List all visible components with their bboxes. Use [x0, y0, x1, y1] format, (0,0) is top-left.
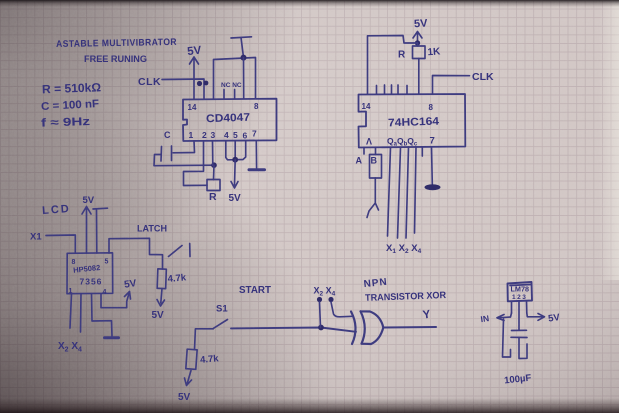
display pin wires X2 X4: [70, 294, 81, 332]
wire X1 to display: [46, 235, 75, 253]
junction dots CLK: [197, 81, 202, 86]
wire pin2 loop to resistor left: [184, 141, 208, 186]
wire pin7 to ground: [255, 141, 257, 168]
5V arrow (LCD): [82, 207, 91, 254]
T line (LCD): [93, 208, 108, 253]
latch switch contact: [189, 244, 191, 257]
ground (U1 pin7): [249, 168, 265, 171]
capacitor C plates: [161, 146, 172, 161]
wire resistor to IC: [418, 59, 420, 95]
wire latch net: [109, 238, 163, 269]
wire cap bottom loop: [519, 338, 527, 359]
regulator pins: [512, 301, 527, 330]
top rail to pins: [214, 58, 256, 99]
wire start resistor to 5V: [185, 371, 192, 386]
stub right bottom: [421, 147, 423, 156]
ground (display): [105, 336, 119, 339]
unconnected pin stubs top: [377, 85, 408, 94]
wires pins 4,5,6 tied: [226, 141, 246, 160]
wire rail drop to IC top: [243, 58, 245, 99]
IC U2 74HC164 box: [359, 94, 466, 148]
wire junction up to pin3: [212, 141, 214, 165]
5V arrow into pin 14 line: [190, 57, 199, 99]
display pin to ground: [92, 294, 113, 336]
wire start to XOR: [231, 328, 356, 332]
wire X4 to gate: [331, 302, 353, 317]
resistor 4.7k (latch): [157, 269, 166, 289]
regulator box top double line: [510, 285, 531, 286]
resistor R box: [207, 180, 220, 191]
wire pin B to resistor: [375, 148, 377, 155]
wire 5V dot to resistor: [417, 43, 419, 46]
antenna T bar: [231, 37, 252, 58]
pin A stub: [363, 148, 365, 155]
junction dot pin3: [211, 162, 217, 168]
capacitor 100uF plates: [511, 330, 527, 337]
resistor 4.7k (start): [186, 349, 197, 369]
regulator U4 box: [508, 282, 533, 301]
NC pin stubs: [224, 90, 235, 99]
wire pin7 to ground: [431, 147, 434, 184]
wire CLK to pin 8: [433, 76, 470, 95]
xor gate body: [361, 311, 384, 344]
wire X2 to junction: [320, 302, 321, 328]
terminal dot X2: [317, 297, 322, 302]
wire junction down to resistor R: [213, 165, 216, 179]
op IC U1 CD4047 box: [183, 99, 277, 141]
power rail to pin14 side: [368, 36, 418, 95]
wire resistor to Y arrow: [367, 178, 379, 218]
wires Qa Qb Qc outputs: [388, 147, 417, 238]
junction dot above 1K: [415, 40, 420, 45]
junction dot pins456: [232, 157, 238, 163]
terminal dot X4: [328, 297, 333, 302]
5V arrow (display mid): [101, 292, 131, 308]
ground blob (U2): [425, 184, 441, 190]
display U3 box: [67, 253, 113, 294]
wire to 5V (down arrow): [231, 160, 238, 188]
latch switch lever: [169, 246, 183, 257]
xor gate input arc: [351, 312, 356, 345]
wire 5V out arrow: [527, 313, 545, 320]
wire Y output: [383, 326, 436, 329]
junction dot rail: [241, 55, 247, 61]
resistor 1K box: [413, 46, 426, 59]
wire pin1 to capacitor: [173, 141, 195, 153]
wire IN arrow: [497, 313, 512, 321]
wire cap left to pin3 junction: [154, 155, 214, 166]
resistor below B: [370, 155, 382, 179]
junction dot (X2 into wire): [318, 325, 324, 331]
wire latch resistor to 5V: [157, 289, 165, 307]
switch S1 lever: [214, 320, 228, 329]
wire CLK to pin 14 area: [162, 79, 204, 99]
wire start left + resistor drop: [195, 329, 214, 350]
wire loop left (IN down): [503, 319, 511, 357]
5V arrow (74HC164): [413, 32, 422, 43]
